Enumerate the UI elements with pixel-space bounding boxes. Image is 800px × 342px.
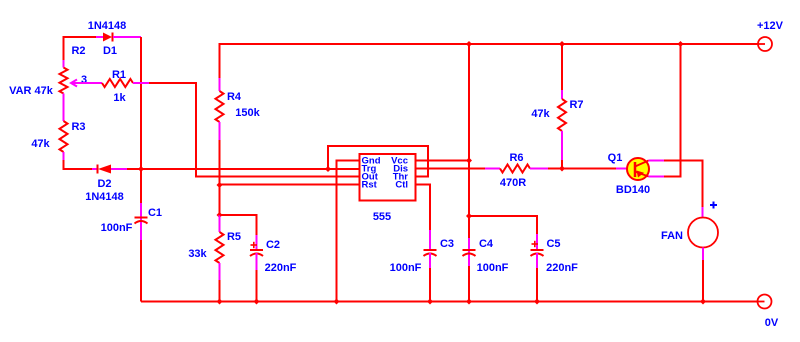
junction rail C5	[534, 299, 540, 305]
resistor R7	[558, 99, 566, 169]
resistor R5	[216, 215, 224, 302]
svg-text:100nF: 100nF	[390, 262, 422, 274]
label pin Trg	[362, 164, 377, 175]
wire between R2 and R3	[63, 94, 65, 122]
label 1N4148 D2	[85, 191, 124, 203]
svg-text:33k: 33k	[188, 248, 207, 260]
label C1	[148, 207, 162, 219]
junction rail FAN	[700, 299, 706, 305]
plus sign C2	[251, 242, 258, 248]
wire Rst net	[220, 184, 360, 186]
label R4	[227, 91, 242, 103]
wire bottom 0V rail	[141, 301, 758, 303]
wire R7 column	[561, 44, 563, 99]
label BD140	[616, 184, 650, 196]
label 555	[373, 211, 391, 223]
label D1	[103, 45, 117, 57]
junction Vcc column	[466, 158, 472, 164]
junction top rail C4 column	[466, 41, 472, 47]
label R6	[509, 152, 523, 164]
wire R1 from wiper	[77, 82, 102, 84]
svg-text:R4: R4	[227, 91, 242, 103]
svg-text:D1: D1	[103, 45, 117, 57]
wire C5 branch	[469, 216, 537, 250]
label 470R	[500, 177, 526, 189]
wire R3 to D2	[64, 160, 93, 169]
label 100nF C1	[101, 222, 133, 234]
svg-text:1N4148: 1N4148	[85, 191, 124, 203]
label 33k	[188, 248, 207, 260]
junction top rail R7	[559, 41, 565, 47]
wire R1 to 555 Out	[149, 83, 360, 177]
wire D1 cathode down to junction	[140, 37, 142, 169]
svg-text:555: 555	[373, 211, 391, 223]
wire C2 branch	[220, 215, 257, 250]
label 150k	[235, 107, 260, 119]
svg-text:VAR 47k: VAR 47k	[9, 85, 54, 97]
label R3	[71, 121, 85, 133]
svg-text:100nF: 100nF	[101, 222, 133, 234]
label 100nF C3	[390, 262, 422, 274]
svg-text:1k: 1k	[113, 92, 126, 104]
label +12V	[757, 20, 784, 32]
label pin Dis	[393, 164, 408, 175]
label 220nF C5	[546, 262, 578, 274]
svg-text:Rst: Rst	[362, 180, 378, 191]
label C4	[479, 238, 494, 250]
svg-text:Ctl: Ctl	[395, 180, 408, 191]
resistor R1	[102, 79, 149, 87]
svg-text:470R: 470R	[500, 177, 526, 189]
label R5	[227, 231, 241, 243]
svg-text:R1: R1	[112, 69, 126, 81]
svg-text:C3: C3	[440, 238, 454, 250]
junction node D1 D2 C1	[138, 166, 144, 172]
terminal 0V	[757, 295, 772, 309]
potentiometer R2	[60, 68, 68, 94]
IC U1 555 box	[360, 154, 416, 201]
wire Q1 emitter to +12V rail	[649, 44, 681, 177]
svg-text:C5: C5	[546, 238, 560, 250]
wire Gnd net to 0V rail	[337, 161, 360, 302]
svg-text:R5: R5	[227, 231, 241, 243]
wire C4 column from rail	[468, 44, 470, 216]
junction rail Gnd	[334, 299, 340, 305]
label Q1	[608, 152, 623, 164]
label pin Out	[362, 172, 379, 183]
label pin Thr	[393, 172, 409, 183]
wire Dis net to R6	[415, 168, 501, 170]
label 47k R3	[31, 138, 50, 150]
capacitor C4	[463, 216, 476, 302]
label pin Rst	[362, 180, 378, 191]
wire Vcc net	[415, 160, 470, 162]
junction top rail Q1	[678, 41, 684, 47]
resistor R4	[216, 91, 224, 185]
label C5	[546, 238, 560, 250]
transistor Q1	[627, 158, 649, 180]
junction rail C2	[254, 299, 260, 305]
label VAR 47k	[9, 85, 54, 97]
svg-text:3: 3	[81, 74, 87, 86]
label 220nF C2	[265, 262, 297, 274]
resistor R3	[60, 121, 68, 160]
junction R5 C2	[217, 212, 223, 218]
wire R4 top lead	[219, 78, 221, 91]
svg-text:220nF: 220nF	[546, 262, 578, 274]
svg-text:D2: D2	[97, 178, 111, 190]
wire Q1 collector to FAN	[649, 161, 703, 218]
wire C1 column upper	[140, 169, 142, 240]
svg-text:C4: C4	[479, 238, 494, 250]
label R7	[569, 99, 583, 111]
svg-text:R6: R6	[509, 152, 523, 164]
capacitor C3	[424, 250, 437, 302]
label pin Vcc	[391, 156, 408, 167]
wire R4 to R5	[219, 185, 221, 215]
wire FAN to 0V rail	[702, 248, 704, 302]
resistor R6	[500, 165, 562, 173]
junction rail R5	[217, 299, 223, 305]
svg-text:+12V: +12V	[757, 20, 784, 32]
motor FAN	[688, 218, 718, 248]
junction rail C4	[466, 299, 472, 305]
svg-text:220nF: 220nF	[265, 262, 297, 274]
wire Ctl net to C3	[415, 185, 431, 251]
wire top +12V rail	[220, 44, 759, 78]
plus sign FAN	[710, 202, 717, 209]
wire trigger net to 555	[141, 168, 360, 170]
svg-text:C2: C2	[266, 239, 280, 251]
wire base net to Q1	[562, 168, 627, 170]
wire C1 bottom to rail	[140, 240, 142, 302]
wire D2 to junction	[127, 168, 141, 170]
capacitor C2	[250, 250, 263, 302]
potentiometer R2 lead top	[63, 60, 65, 68]
diode D1	[96, 33, 141, 42]
label 1N4148 D1	[88, 20, 127, 32]
svg-text:R2: R2	[71, 45, 85, 57]
svg-text:FAN: FAN	[661, 230, 683, 242]
label 0V	[765, 317, 779, 329]
label 3	[81, 74, 87, 86]
potentiometer wiper arrow	[71, 80, 102, 87]
svg-text:R3: R3	[71, 121, 85, 133]
wire top-left corner to D1	[64, 37, 97, 60]
svg-text:R7: R7	[569, 99, 583, 111]
label pin Gnd	[362, 156, 381, 167]
label FAN	[661, 230, 683, 242]
junction C4 C5 branch	[466, 213, 472, 219]
label pin Ctl	[395, 180, 408, 191]
junction rail C3	[427, 299, 433, 305]
svg-text:47k: 47k	[31, 138, 50, 150]
capacitor C5	[531, 250, 544, 302]
svg-text:150k: 150k	[235, 107, 260, 119]
plus sign C5	[532, 241, 539, 247]
wire Trg to Thr loop	[328, 146, 428, 177]
label 1k	[113, 92, 126, 104]
label D2	[97, 178, 111, 190]
label C2	[266, 239, 280, 251]
label R2	[71, 45, 85, 57]
svg-text:47k: 47k	[531, 108, 550, 120]
svg-text:0V: 0V	[765, 317, 779, 329]
svg-text:C1: C1	[148, 207, 162, 219]
label C3	[440, 238, 454, 250]
junction R6 R7 base	[559, 166, 565, 172]
label 100nF C4	[477, 262, 509, 274]
label 47k R7	[531, 108, 550, 120]
svg-text:BD140: BD140	[616, 184, 650, 196]
junction R4 R5 Rst	[217, 182, 223, 188]
terminal +12V	[757, 37, 772, 51]
diode D2	[92, 165, 127, 174]
label R1	[112, 69, 126, 81]
capacitor C1	[135, 218, 148, 224]
svg-text:Q1: Q1	[608, 152, 623, 164]
junction trigger loop	[325, 166, 331, 172]
svg-text:100nF: 100nF	[477, 262, 509, 274]
svg-text:1N4148: 1N4148	[88, 20, 127, 32]
